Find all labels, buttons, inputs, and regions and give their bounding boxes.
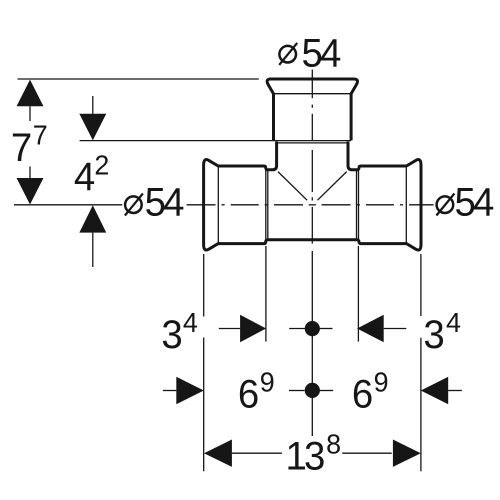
svg-text:7: 7 (11, 126, 32, 170)
stub above 7-arrow bottom (29, 167, 31, 179)
left socket bead junction line (217, 166, 219, 244)
svg-text:3: 3 (161, 313, 182, 357)
extension line right end (420, 254, 422, 316)
svg-text:2: 2 (94, 149, 109, 181)
stub below 7-arrow top (29, 106, 31, 121)
right socket depth double line (356, 170, 358, 240)
svg-text:8: 8 (326, 428, 341, 460)
svg-text:9: 9 (374, 366, 389, 398)
arrow left row2 (421, 377, 448, 404)
label 7 superscript 7 (11, 119, 48, 170)
dot row1 (305, 321, 320, 336)
label 13 superscript 8 (286, 428, 342, 479)
stub below 4-arrow bottom (92, 233, 94, 267)
label diameter 54 left (125, 181, 184, 225)
label 4 superscript 2 (74, 149, 109, 199)
svg-text:6: 6 (352, 373, 373, 417)
socket depth reference line y=140.6 (80, 140, 352, 142)
left socket depth double line (265, 170, 267, 240)
top socket depth line (second) (277, 142, 348, 144)
arrow right row1 (240, 315, 266, 342)
diagonal V line right (318, 172, 347, 201)
diagonal V line left (278, 172, 307, 201)
tee barrel with left/right flares and inner shoulders (204, 142, 421, 251)
extension line left end (203, 254, 205, 317)
vertical center extension below fitting (311, 251, 313, 436)
arrow up 7dim (17, 80, 44, 107)
top socket bead junction line (274, 93, 352, 95)
stub above 4-arrow top (92, 96, 94, 114)
dot row2 (305, 383, 320, 398)
extension line right socket depth (357, 246, 359, 342)
arrow left row1 (357, 315, 384, 342)
svg-text:4: 4 (183, 306, 198, 338)
svg-text:7: 7 (33, 119, 48, 151)
svg-text:3: 3 (423, 313, 444, 357)
arrow left row3 (204, 440, 232, 467)
extension line left socket depth (265, 246, 267, 342)
svg-text:4: 4 (446, 306, 461, 338)
label diameter 54 right (436, 181, 493, 225)
arrow down 7dim (17, 178, 44, 205)
arrow up 4dim (79, 205, 106, 232)
label 6 superscript 9 right (352, 366, 389, 417)
top reference line y=79 (18, 78, 259, 80)
svg-text:54: 54 (302, 32, 341, 76)
center reference dimension line y=204.8 (14, 204, 122, 206)
top socket flare + outer walls (267, 79, 357, 140)
svg-text:54: 54 (455, 181, 494, 225)
right socket bead junction line (405, 166, 407, 244)
vertical center line of top socket (dash-dot segments) (311, 70, 313, 99)
label 3 superscript 4 left (161, 306, 198, 357)
svg-text:6: 6 (238, 373, 259, 417)
svg-text:54: 54 (145, 181, 184, 225)
arrow down 4dim (79, 114, 106, 140)
arrow right row2 (176, 377, 204, 404)
label diameter 54 top (279, 32, 340, 76)
label 3 superscript 4 right (423, 306, 461, 357)
svg-text:4: 4 (74, 155, 95, 199)
arrow right row3 (393, 440, 421, 467)
label 6 superscript 9 left (238, 366, 275, 417)
horizontal center line through fitting (dash-dot segments) (187, 204, 216, 206)
svg-text:13: 13 (286, 435, 325, 479)
svg-text:9: 9 (260, 366, 275, 398)
thin interior lines of fitting (218, 94, 406, 244)
